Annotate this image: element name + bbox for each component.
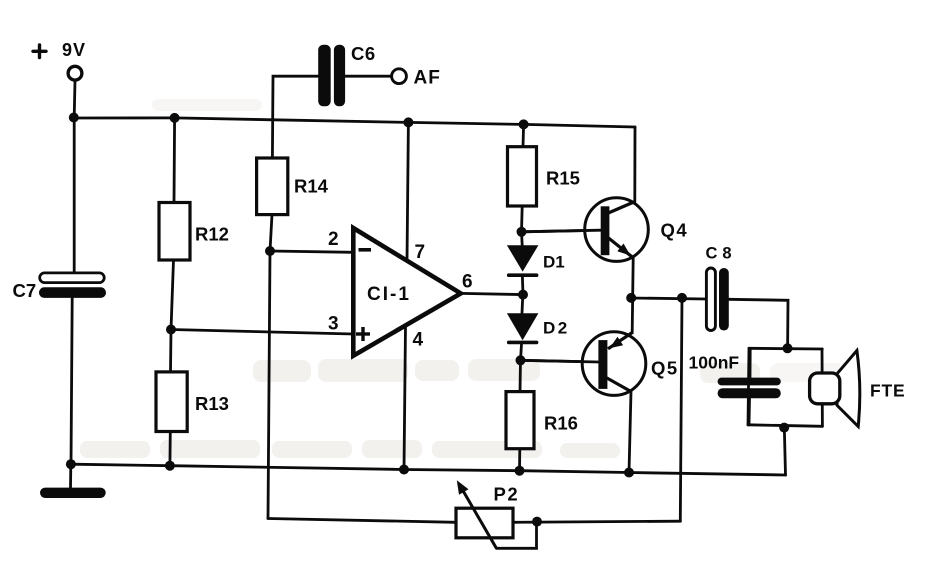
node C8 feedback tap xyxy=(677,293,687,303)
wire inverting input pin 2 xyxy=(270,251,353,252)
wire R16 top lead xyxy=(519,360,522,391)
node ground rail at R13 xyxy=(165,461,175,471)
wire R15 bottom lead xyxy=(520,206,524,232)
battery terminal 9V xyxy=(68,66,82,80)
resistor R12 xyxy=(159,203,190,261)
capacitor C7 xyxy=(39,273,106,298)
node network top xyxy=(783,343,793,353)
wire Q5 base xyxy=(521,360,600,362)
wire non-inverting input pin 3 xyxy=(171,330,353,335)
wire R14 bottom lead xyxy=(270,215,272,251)
wire D2 anode lead xyxy=(521,295,525,314)
svg-text:D2: D2 xyxy=(543,319,570,338)
node network bottom xyxy=(779,423,789,433)
capacitor 100nF xyxy=(718,378,781,399)
svg-text:D1: D1 xyxy=(543,253,565,272)
wire Q4-Q5 emitter vertical xyxy=(632,258,633,332)
node top rail at R12 xyxy=(170,113,180,123)
diode D2 xyxy=(507,313,539,344)
node R15 D1 Q4 base xyxy=(517,227,527,237)
scan bleed-through band upper xyxy=(80,99,845,458)
wire R12 bottom lead xyxy=(171,260,174,330)
node ground rail at pin4 xyxy=(399,465,409,475)
wire Q4 collector vertical xyxy=(633,127,636,202)
node top rail at 9V xyxy=(69,113,79,123)
wire pin 4 supply xyxy=(404,325,406,469)
wire D1 cathode lead xyxy=(521,277,524,295)
wire C8 right lead with corner down xyxy=(729,299,788,348)
wire C7 upper lead xyxy=(73,118,76,273)
op-amp plus sign xyxy=(356,327,370,341)
resistor R14 xyxy=(257,158,288,215)
svg-text:R14: R14 xyxy=(294,176,329,197)
node top rail at R15 xyxy=(519,119,529,129)
wire C6 right lead to AF terminal xyxy=(345,75,391,78)
node emitter junction xyxy=(626,293,636,303)
wire R12 top lead xyxy=(173,118,176,203)
wire C6 left lead with corner to R14 xyxy=(272,76,318,158)
wire Q4 base xyxy=(522,230,602,232)
potentiometer P2 xyxy=(456,480,513,548)
svg-text:6: 6 xyxy=(462,272,473,293)
svg-text:3: 3 xyxy=(328,314,339,335)
svg-text:C6: C6 xyxy=(351,43,376,64)
wire D2 cathode lead xyxy=(521,344,522,360)
svg-text:FTE: FTE xyxy=(870,381,905,401)
wire speaker network top rail xyxy=(749,347,822,351)
wire D1 anode lead xyxy=(520,232,524,246)
node R14 pin2 feedback xyxy=(265,246,275,256)
svg-text:9V: 9V xyxy=(62,40,86,60)
wire bottom ground rail xyxy=(71,464,786,475)
node ground rail at R16 xyxy=(515,466,525,476)
svg-text:AF: AF xyxy=(414,68,441,89)
speaker FTE xyxy=(810,351,860,427)
svg-text:7: 7 xyxy=(415,242,426,263)
svg-text:R12: R12 xyxy=(195,224,229,245)
terminal AF xyxy=(392,69,407,84)
op-amp U1 CI-1 xyxy=(353,228,461,356)
node top rail at pin7 xyxy=(403,117,413,127)
svg-text:2: 2 xyxy=(328,229,339,250)
resistor R15 xyxy=(508,147,537,206)
wire P2 right lead xyxy=(513,521,680,522)
wire emitter node to C8 xyxy=(631,298,706,299)
resistor R16 xyxy=(506,392,534,449)
wire pin 6 output xyxy=(461,293,523,294)
resistor R13 xyxy=(156,372,187,432)
diode D1 xyxy=(507,245,539,277)
wire R13 top lead xyxy=(169,330,172,372)
node R12-R13 pin3 xyxy=(166,325,176,335)
wire feedback right vertical xyxy=(680,298,682,521)
wire R13 bottom lead xyxy=(168,432,171,466)
svg-text:R15: R15 xyxy=(546,168,580,189)
svg-text:P2: P2 xyxy=(494,484,520,505)
wire R16 bottom lead xyxy=(518,449,521,471)
wire network to ground rail xyxy=(784,427,785,475)
svg-text:C7: C7 xyxy=(13,280,37,301)
transistor Q5 xyxy=(521,332,646,396)
svg-text:Q5: Q5 xyxy=(651,358,679,379)
wire P2 wiper loop xyxy=(496,522,536,549)
svg-text:C8: C8 xyxy=(706,245,737,263)
wire 9V terminal lead xyxy=(73,81,77,118)
node D2 R16 Q5 base xyxy=(516,355,526,365)
svg-text:Q4: Q4 xyxy=(661,220,689,241)
svg-text:R16: R16 xyxy=(544,413,578,434)
wire 100nF top stub xyxy=(749,348,752,377)
wire P2 left lead xyxy=(268,519,456,523)
wire Q5 collector vertical xyxy=(629,391,631,472)
wire speaker network right vertical xyxy=(821,349,824,426)
svg-text:100nF: 100nF xyxy=(689,353,740,373)
transistor Q4 xyxy=(522,198,649,262)
wire pin 7 supply xyxy=(407,122,408,261)
wire ground lead xyxy=(69,464,72,488)
node ground rail at Q5 xyxy=(624,468,634,478)
op-amp minus sign xyxy=(359,248,372,252)
node ground rail at C7 xyxy=(66,459,76,469)
wire top supply rail xyxy=(74,118,635,127)
svg-text:R13: R13 xyxy=(195,393,229,414)
wire R15 top lead xyxy=(522,124,525,146)
svg-text:4: 4 xyxy=(413,330,424,351)
wire 100nF bottom stub xyxy=(748,398,751,425)
node D1 D2 pin6 xyxy=(518,290,528,300)
wire feedback left vertical xyxy=(268,251,270,519)
ground xyxy=(40,488,106,498)
svg-text:CI-1: CI-1 xyxy=(367,284,411,305)
wire speaker network left vertical xyxy=(748,348,749,425)
capacitor C8 xyxy=(706,268,728,331)
capacitor C6 xyxy=(318,45,345,107)
wire C7 lower lead xyxy=(71,298,72,464)
plus sign xyxy=(33,45,46,58)
wire speaker network bottom rail xyxy=(748,425,822,427)
node P2 wiper tie xyxy=(532,517,542,527)
